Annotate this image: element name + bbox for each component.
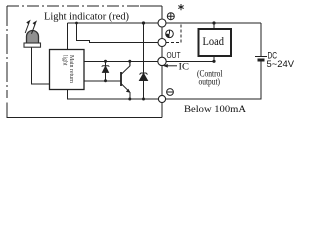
svg-text:output): output) (199, 77, 221, 88)
svg-text:Below 100mA: Below 100mA (184, 105, 246, 115)
svg-text:Load: Load (203, 34, 225, 48)
svg-text:5~24V: 5~24V (267, 59, 295, 70)
svg-text:IC: IC (179, 62, 190, 72)
svg-text:Light indicator (red): Light indicator (red) (44, 11, 129, 23)
svg-text:light: light (62, 55, 69, 66)
svg-text:OUT: OUT (167, 50, 181, 60)
